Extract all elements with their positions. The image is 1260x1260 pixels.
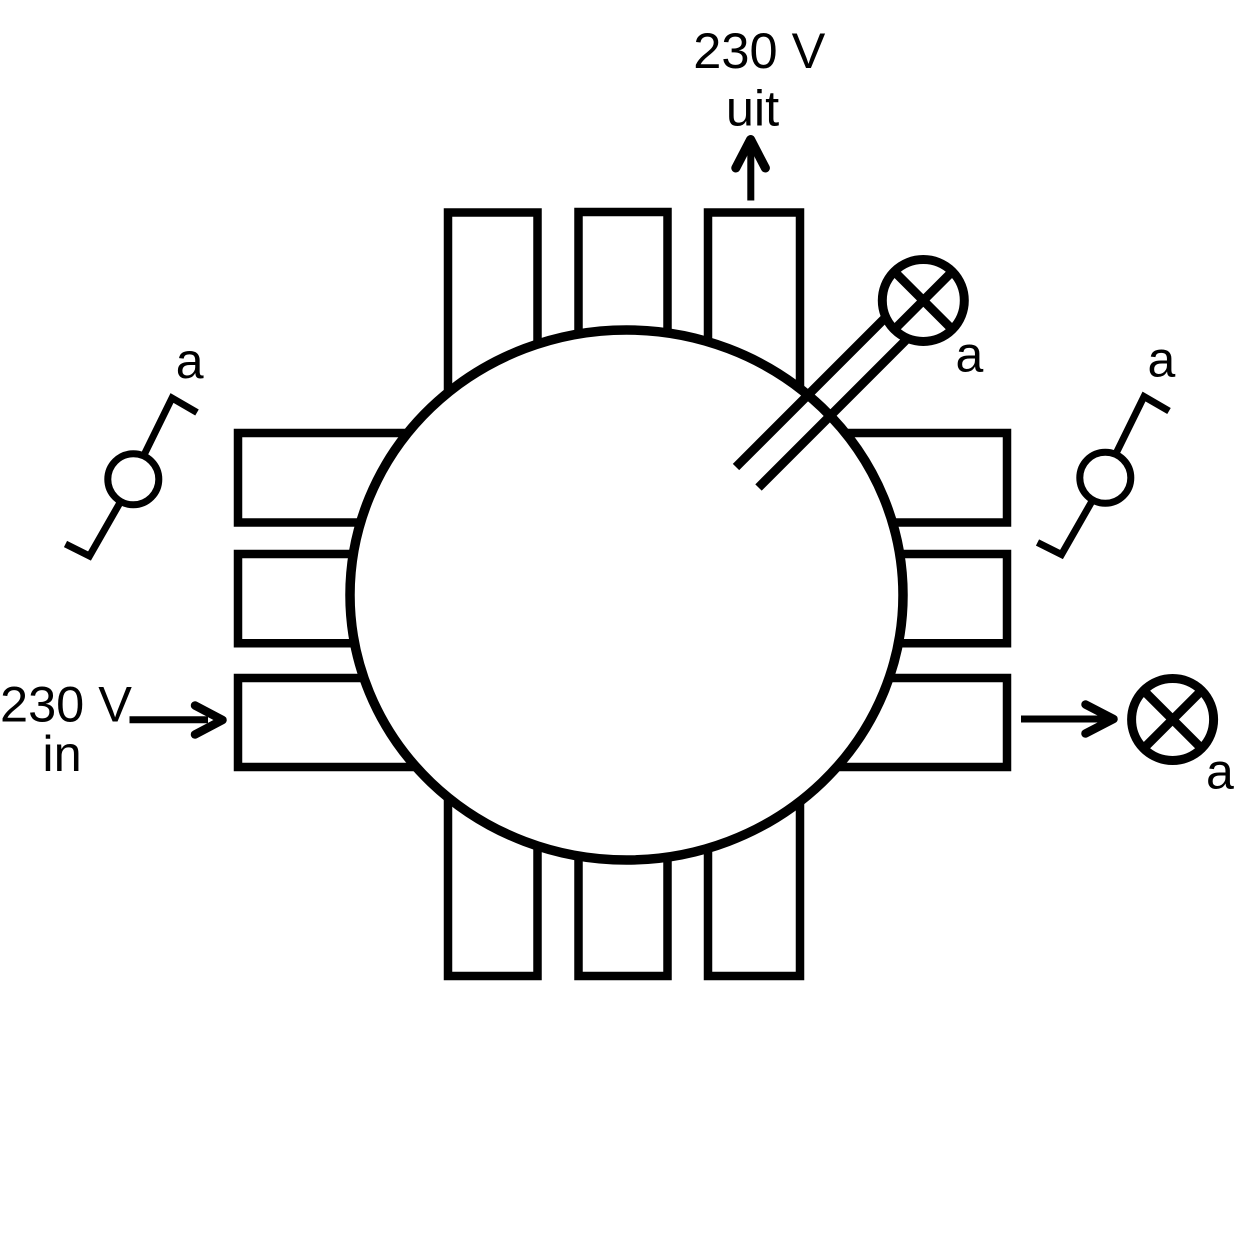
svg-text:in: in [42, 725, 81, 782]
svg-text:a: a [956, 326, 984, 382]
svg-text:230 V: 230 V [693, 22, 825, 79]
switch S2 (right) [1038, 397, 1170, 555]
conduit stub right 1 [790, 433, 1007, 523]
svg-text:a: a [176, 333, 204, 389]
svg-text:a: a [1148, 332, 1176, 388]
wire to lamp a, conductor 1 [736, 308, 895, 467]
conduit stub top 1 [448, 213, 538, 431]
230 V in arrow [130, 706, 223, 735]
conduit stub bottom 2 [579, 760, 668, 976]
conduit stub left 1 [238, 433, 470, 523]
svg-text:a: a [1206, 743, 1234, 799]
conduit stub left 3 [238, 678, 470, 767]
conduit stub top 2 [579, 212, 668, 430]
svg-text:uit: uit [726, 79, 779, 136]
switch S1 (left) [66, 398, 198, 556]
wire to lamp a, conductor 2 [759, 325, 922, 488]
conduit stub bottom 3 [708, 760, 800, 976]
conduit stub left 2 [238, 554, 470, 643]
lamp E2 (right) [1132, 679, 1214, 761]
conduit stub right 3 [790, 678, 1007, 767]
conduit stub bottom 1 [448, 760, 538, 976]
230 V out arrow [736, 140, 766, 201]
junction box (centraaldoos) [350, 330, 903, 860]
lamp E1 (top right) [882, 260, 964, 342]
arrow to lamp E2 [1021, 705, 1114, 734]
conduit stub right 2 [790, 554, 1007, 643]
svg-text:230 V: 230 V [0, 676, 132, 733]
conduit stub top 3 [708, 213, 800, 431]
